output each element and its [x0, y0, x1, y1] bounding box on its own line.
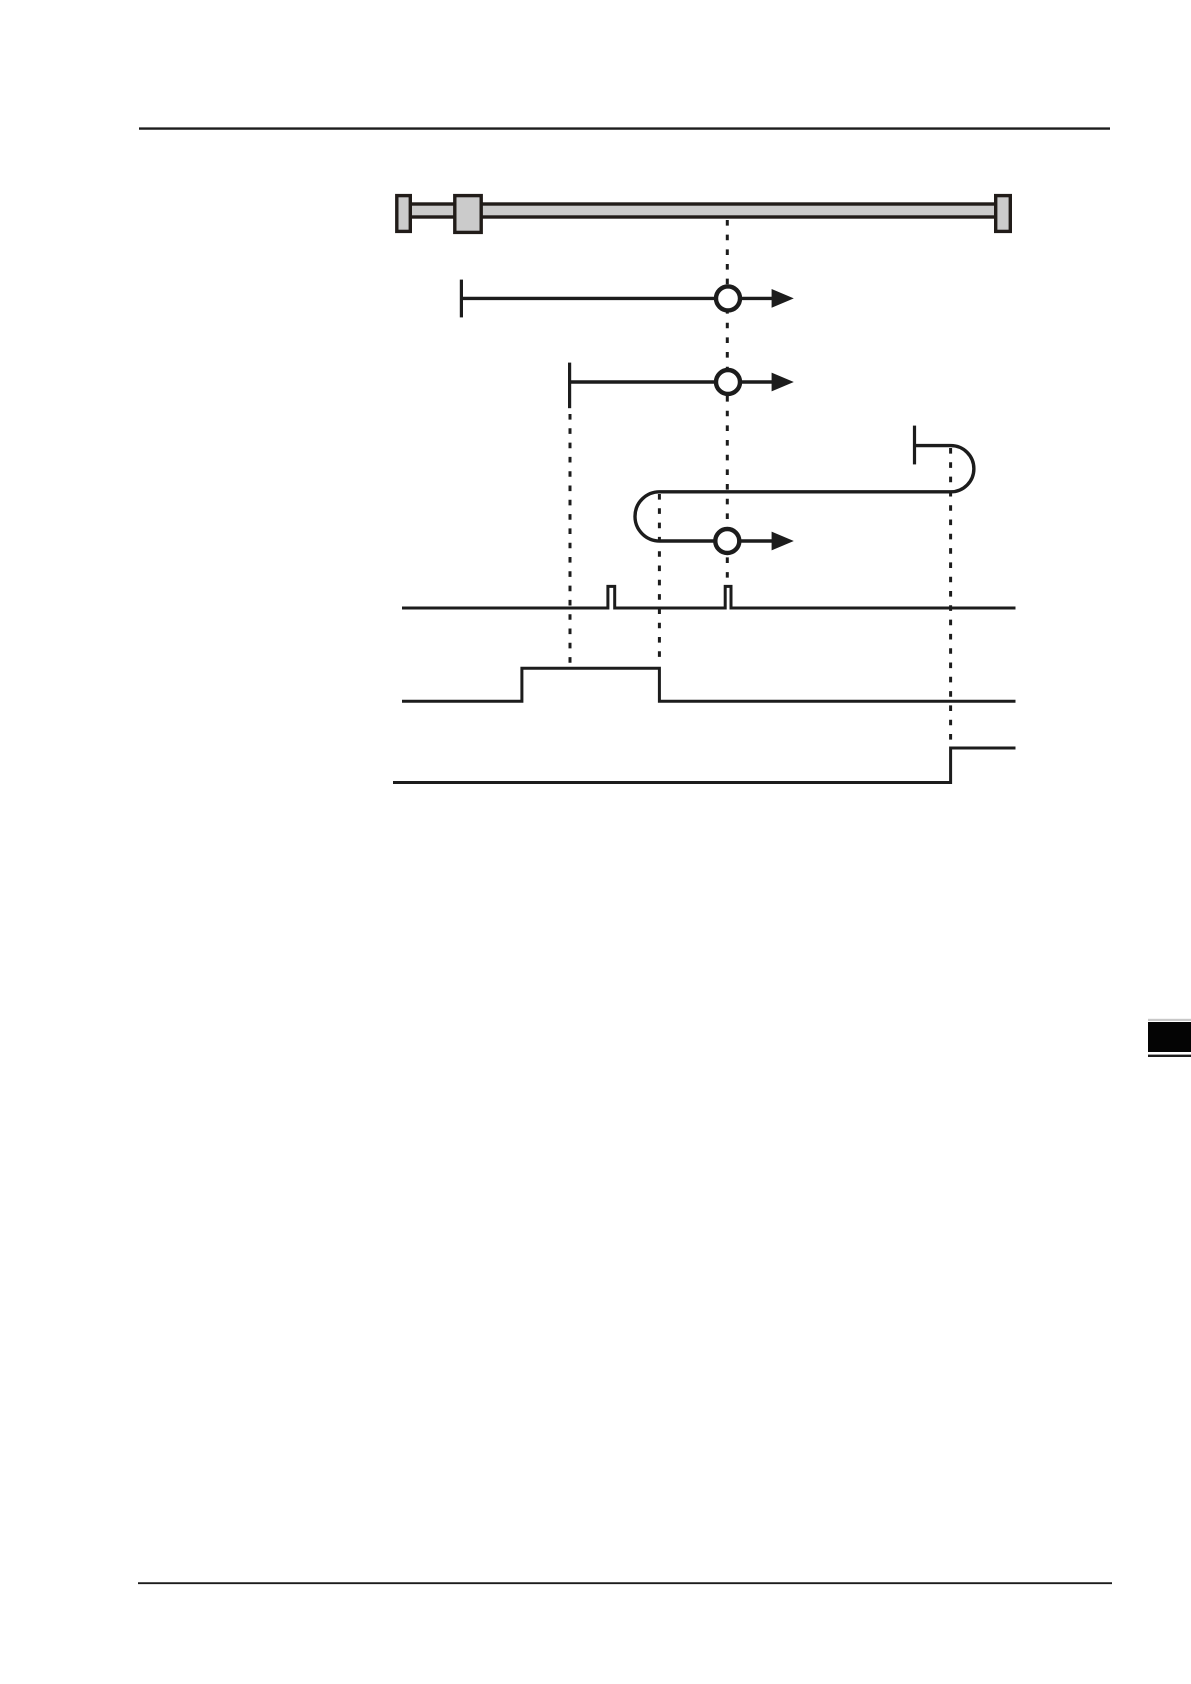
home switch waveform: [402, 668, 1016, 701]
chapter tab: [1148, 1022, 1191, 1052]
chapter tab bottom line: [1148, 1055, 1191, 1057]
index pulse waveform: [402, 586, 1016, 608]
header rule: [139, 127, 1110, 129]
right end stop: [996, 196, 1011, 232]
footer rule: [138, 1582, 1112, 1584]
motion 1 index circle: [716, 286, 740, 310]
motion 3 arrowhead: [772, 532, 794, 551]
motion 1 wire: [461, 297, 774, 300]
motion 1 start tick: [460, 280, 463, 318]
motion 2 arrowhead: [772, 373, 794, 392]
linear axis shaft: [405, 204, 1003, 217]
motion 3 reverse path: [635, 446, 974, 541]
motion 2 start tick: [568, 363, 571, 409]
motion 3 index circle: [715, 529, 739, 553]
motion 2 wire: [570, 380, 774, 383]
chapter tab gray top line: [1148, 1019, 1191, 1021]
motion 1 arrowhead: [772, 289, 794, 308]
dotted reference line reverse point: [949, 448, 952, 744]
dotted reference line home position: [726, 220, 729, 578]
motion 3 start tick: [913, 426, 916, 465]
carriage block: [455, 196, 481, 233]
left end stop: [397, 196, 411, 232]
homing done waveform: [393, 748, 1016, 783]
dotted reference line switch ON edge: [569, 414, 572, 664]
motion 2 index circle: [716, 370, 740, 394]
dotted reference line switch OFF edge: [658, 494, 661, 663]
